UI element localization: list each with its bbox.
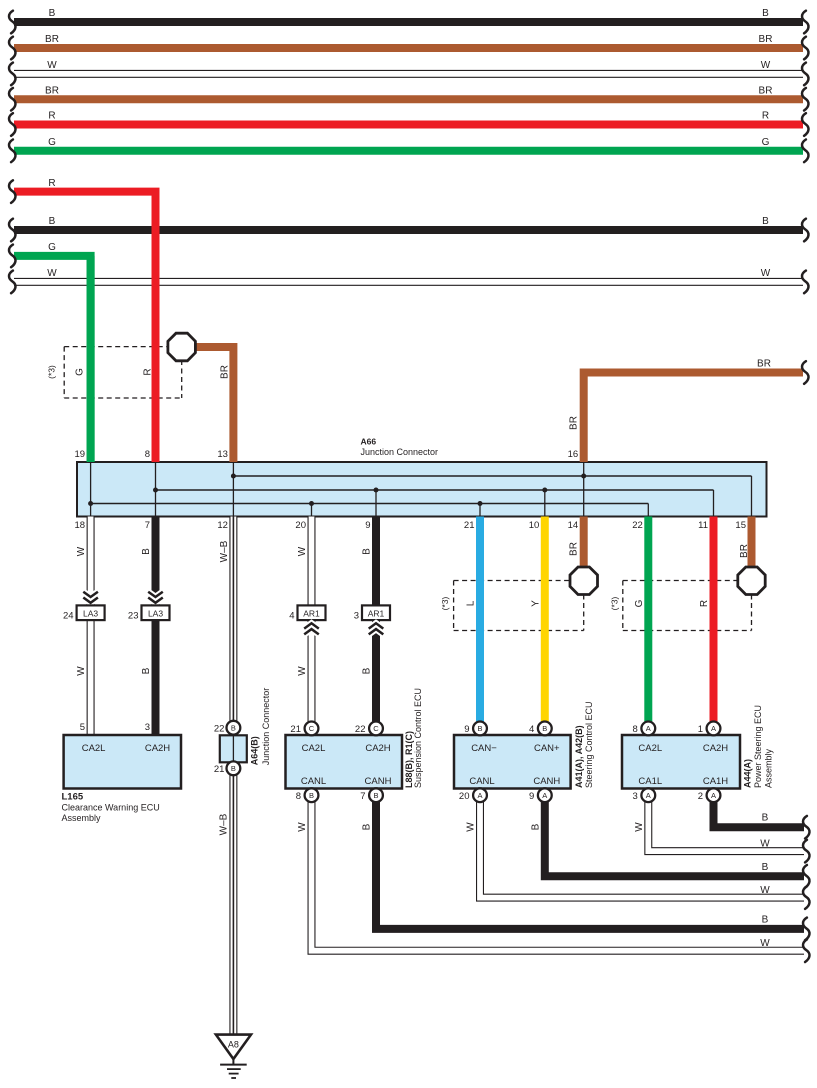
ground bar 3 <box>229 1073 239 1075</box>
A66 CAN-low bus line <box>91 503 649 505</box>
svg-text:B: B <box>49 216 56 227</box>
pin circle 1 A of A44 <box>707 722 721 736</box>
svg-text:21: 21 <box>214 764 225 775</box>
junction dot pin13 bus <box>231 474 236 479</box>
wire R horizontal to vertical pin 8 <box>14 192 156 462</box>
svg-text:CAN−: CAN− <box>471 743 497 754</box>
wire BR pin14 to shield octagon <box>580 517 588 581</box>
svg-text:A: A <box>477 791 482 800</box>
svg-text:B: B <box>231 764 236 773</box>
connector arrows into AR1 pin4 <box>304 623 319 628</box>
svg-text:G: G <box>48 242 56 253</box>
svg-text:13: 13 <box>217 449 228 460</box>
svg-text:W: W <box>76 666 87 676</box>
break left R y=124.5 <box>9 113 15 136</box>
junction dot pin20 bus <box>309 501 314 506</box>
svg-text:22: 22 <box>632 520 643 531</box>
svg-text:B: B <box>762 813 769 824</box>
svg-text:G: G <box>634 599 645 607</box>
break right R y=124.5 <box>802 113 808 136</box>
svg-text:R: R <box>48 178 55 189</box>
wire B from A41 pin9 CANH to right edge <box>545 795 804 876</box>
wire B pin9 to L88 pin22 <box>372 517 380 736</box>
A66 pin stub 16-14 <box>583 462 585 517</box>
svg-text:Junction Connector: Junction Connector <box>361 447 439 457</box>
svg-text:A: A <box>711 791 716 800</box>
svg-text:BR: BR <box>759 34 773 45</box>
connector arrows into LA3 pin24 <box>83 592 98 597</box>
break left W group2 <box>9 271 15 294</box>
break right BR pin16 <box>802 361 808 384</box>
svg-text:Power Steering ECU: Power Steering ECU <box>753 705 763 788</box>
svg-text:W: W <box>761 60 771 71</box>
svg-text:W: W <box>297 546 308 556</box>
svg-text:LA3: LA3 <box>83 609 98 619</box>
wire B horizontal second group <box>14 226 803 234</box>
A66 shield bus line <box>233 475 751 477</box>
A66 CAN-high bus line <box>156 489 714 491</box>
svg-text:B: B <box>362 823 373 830</box>
svg-text:BR: BR <box>759 85 773 96</box>
shield terminator octagon pin15 <box>738 567 765 595</box>
pin circle 8 B of L88 <box>305 788 319 802</box>
svg-text:AR1: AR1 <box>303 609 320 619</box>
svg-text:C: C <box>373 724 379 733</box>
svg-text:W: W <box>297 822 308 832</box>
svg-text:B: B <box>309 791 314 800</box>
svg-text:12: 12 <box>217 520 228 531</box>
ground bar 1 <box>220 1064 247 1066</box>
pin circle 21 C of L88 <box>305 722 319 736</box>
wire B from L88 pin7 CANH to right edge <box>376 795 804 929</box>
junction connector A64(B) box <box>220 735 247 762</box>
svg-text:22: 22 <box>355 724 366 735</box>
wire G horizontal top group y=150.8 <box>14 147 803 155</box>
A66 pin stub 21 <box>479 504 481 517</box>
svg-text:A: A <box>542 791 547 800</box>
svg-text:22: 22 <box>214 723 225 734</box>
pin circle 21 B of A64 <box>227 761 241 775</box>
pin circle 3 A of A44 <box>641 788 655 802</box>
wire G horizontal to vertical pin 19 <box>14 256 91 462</box>
wire R horizontal top group y=124.5 <box>14 121 803 129</box>
svg-text:BR: BR <box>569 542 580 556</box>
wire G pin22 to A44 pin8 <box>644 517 652 729</box>
ground bar 2 <box>227 1068 241 1070</box>
junction dot pin9 bus <box>374 488 379 493</box>
svg-text:Clearance Warning ECU: Clearance Warning ECU <box>62 803 160 813</box>
svg-text:B: B <box>762 216 769 227</box>
svg-text:A41(A), A42(B): A41(A), A42(B) <box>574 725 584 788</box>
A66 pin stub 13-12 <box>232 462 234 517</box>
svg-text:L: L <box>466 600 477 606</box>
shield terminator octagon top <box>168 333 196 361</box>
svg-text:R: R <box>699 600 710 607</box>
svg-text:7: 7 <box>145 520 150 531</box>
svg-text:9: 9 <box>464 724 469 735</box>
svg-text:14: 14 <box>568 520 579 531</box>
svg-text:L165: L165 <box>62 792 84 803</box>
svg-text:W: W <box>760 839 770 850</box>
wire BR shield from octagon to A66 pin 13 <box>194 347 233 462</box>
break left G y=150.8 <box>9 140 15 163</box>
svg-text:B: B <box>762 8 769 19</box>
break right B group2 <box>802 219 808 242</box>
break left BR y=99.2 <box>9 88 15 111</box>
svg-text:CANH: CANH <box>365 776 392 787</box>
junction dot pin8 bus <box>153 488 158 493</box>
connector arrows into AR1 pin3 <box>369 623 384 628</box>
svg-text:G: G <box>48 137 56 148</box>
wire B from A44 pin2 to right edge <box>714 795 805 827</box>
break left BR y=48.0 <box>9 37 15 60</box>
svg-text:B: B <box>141 667 152 674</box>
wire L pin21 to A41 pin9 <box>476 517 484 729</box>
A66 pin stub 8-7 <box>155 462 157 517</box>
svg-text:4: 4 <box>529 724 534 735</box>
svg-text:9: 9 <box>529 791 534 802</box>
svg-text:7: 7 <box>360 791 365 802</box>
svg-text:(*3): (*3) <box>46 365 56 379</box>
svg-text:W: W <box>76 546 87 556</box>
connector AR1 pin 3 <box>362 605 390 620</box>
svg-text:16: 16 <box>568 449 579 460</box>
A66 pin stub 20 <box>311 504 313 517</box>
svg-text:W–B: W–B <box>219 540 230 562</box>
dashed option box (*3) around L and Y wires <box>453 581 455 631</box>
svg-text:W: W <box>47 60 57 71</box>
wire BR from A66 pin 16 to right edge <box>584 373 803 463</box>
break right G y=150.8 <box>802 140 808 163</box>
svg-text:A66: A66 <box>361 437 377 447</box>
svg-text:CANH: CANH <box>533 776 560 787</box>
junction dot pin10 bus <box>542 488 547 493</box>
A66 pin stub 15 <box>751 476 753 517</box>
break right bottom B y=876.3 <box>803 865 809 888</box>
pin circle 9 A of A41 <box>538 788 552 802</box>
svg-text:BR: BR <box>569 416 580 430</box>
ground stem <box>232 1059 234 1065</box>
svg-text:21: 21 <box>464 520 475 531</box>
svg-text:G: G <box>762 137 770 148</box>
svg-text:B: B <box>362 548 373 555</box>
svg-text:3: 3 <box>354 611 359 622</box>
break right W y=73.9 <box>802 63 808 86</box>
svg-text:BR: BR <box>757 359 771 370</box>
wire W from A41 pin20 CANL to right edge <box>480 795 804 897</box>
wire BR horizontal top group y=48.0 <box>14 44 803 52</box>
pin circle 7 B of L88 <box>369 788 383 802</box>
ECU box L165 Clearance Warning ECU <box>64 735 181 789</box>
connector LA3 pin 24 <box>77 605 105 620</box>
svg-text:5: 5 <box>80 722 85 733</box>
svg-text:B: B <box>477 724 482 733</box>
wire W horizontal second group <box>14 278 803 286</box>
svg-text:A8: A8 <box>228 1040 239 1050</box>
break left R group2 <box>9 180 15 203</box>
wire W-B pin12 to ground A8 <box>229 517 237 1035</box>
svg-text:23: 23 <box>128 611 139 622</box>
svg-text:B: B <box>362 667 373 674</box>
break right bottom B y=827.2 <box>803 816 809 839</box>
ground A8 triangle <box>216 1035 251 1059</box>
svg-text:CA2H: CA2H <box>703 743 728 754</box>
svg-text:CA2L: CA2L <box>82 743 106 754</box>
wire R vertical over crossings <box>152 192 160 462</box>
svg-text:R: R <box>762 111 769 122</box>
svg-text:B: B <box>231 724 236 733</box>
break right bottom W y=897.6 <box>803 886 809 909</box>
svg-text:BR: BR <box>219 365 230 379</box>
pin circle 8 A of A44 <box>641 722 655 736</box>
svg-text:A: A <box>711 724 716 733</box>
svg-text:W: W <box>760 938 770 949</box>
svg-text:B: B <box>762 914 769 925</box>
ground bar 4 <box>231 1077 236 1079</box>
svg-text:B: B <box>530 823 541 830</box>
wire G vertical over crossings <box>87 256 95 462</box>
svg-text:Junction Connector: Junction Connector <box>261 688 271 766</box>
svg-text:Suspension Control ECU: Suspension Control ECU <box>413 688 423 788</box>
pin circle 20 A of A41 <box>473 788 487 802</box>
svg-text:Assembly: Assembly <box>763 748 773 788</box>
svg-text:8: 8 <box>145 449 150 460</box>
svg-text:CAN+: CAN+ <box>534 743 560 754</box>
junction dot pin16 bus <box>581 474 586 479</box>
connector arrows into LA3 pin23 <box>148 592 163 597</box>
svg-text:CA2L: CA2L <box>302 743 326 754</box>
svg-text:AR1: AR1 <box>368 609 385 619</box>
svg-text:B: B <box>542 724 547 733</box>
svg-text:A: A <box>646 791 651 800</box>
dashed option box (*3) around G and R wires top <box>63 347 65 398</box>
break right W group2 <box>802 271 808 294</box>
wire W from L88 pin8 CANL to right edge <box>312 795 805 951</box>
connector LA3 pin 23 <box>142 605 170 620</box>
svg-text:BR: BR <box>45 85 59 96</box>
svg-text:B: B <box>762 862 769 873</box>
svg-text:2: 2 <box>698 791 703 802</box>
svg-text:W: W <box>297 666 308 676</box>
junction dot pin21 bus <box>478 501 483 506</box>
svg-text:3: 3 <box>145 722 150 733</box>
pin circle 9 B of A41 <box>473 722 487 736</box>
ECU box A41 Steering Control ECU <box>454 735 571 789</box>
wire W pin18 to L165 pin5 <box>87 517 95 736</box>
svg-text:CA1L: CA1L <box>638 776 662 787</box>
svg-text:24: 24 <box>63 611 74 622</box>
svg-text:9: 9 <box>365 520 370 531</box>
svg-text:Y: Y <box>530 600 541 607</box>
break right bottom W y=851.1 <box>803 840 809 863</box>
svg-text:Steering Control ECU: Steering Control ECU <box>584 701 594 788</box>
wire W from A44 pin3 to right edge <box>648 795 804 851</box>
svg-text:A: A <box>646 724 651 733</box>
svg-text:10: 10 <box>529 520 540 531</box>
svg-text:20: 20 <box>459 791 470 802</box>
svg-text:B: B <box>49 8 56 19</box>
svg-text:8: 8 <box>296 791 301 802</box>
svg-text:CA1H: CA1H <box>703 776 728 787</box>
svg-text:W: W <box>761 268 771 279</box>
pin circle 2 A of A44 <box>707 788 721 802</box>
svg-text:21: 21 <box>290 724 301 735</box>
svg-text:LA3: LA3 <box>148 609 163 619</box>
break left B y=22.0 <box>9 11 15 34</box>
svg-text:CA2H: CA2H <box>365 743 390 754</box>
pin circle 4 B of A41 <box>538 722 552 736</box>
svg-text:C: C <box>309 724 315 733</box>
svg-text:1: 1 <box>698 724 703 735</box>
pin circle 22 B of A64 <box>227 721 241 735</box>
svg-text:BR: BR <box>45 34 59 45</box>
pin circle 22 C of L88 <box>369 722 383 736</box>
svg-text:R: R <box>143 368 154 375</box>
wire BR horizontal top group y=99.2 <box>14 95 803 103</box>
break left B group2 <box>9 219 15 242</box>
A66 pin stub 22 <box>647 504 649 517</box>
svg-text:20: 20 <box>295 520 306 531</box>
svg-text:W: W <box>47 268 57 279</box>
break right BR y=99.2 <box>802 88 808 111</box>
junction dot pin19 bus <box>88 501 93 506</box>
wire BR pin15 to shield octagon <box>748 517 756 581</box>
svg-text:3: 3 <box>633 791 638 802</box>
svg-text:19: 19 <box>75 449 86 460</box>
A66 pin stub 11 <box>713 490 715 517</box>
svg-text:A44(A): A44(A) <box>742 759 752 788</box>
wire R pin11 to A44 pin1 <box>710 517 718 729</box>
svg-text:(*3): (*3) <box>440 596 450 610</box>
svg-text:CA2H: CA2H <box>145 743 170 754</box>
svg-text:B: B <box>373 791 378 800</box>
svg-text:Assembly: Assembly <box>62 813 102 823</box>
shield terminator octagon pin14 <box>570 567 598 595</box>
break right BR y=48.0 <box>802 37 808 60</box>
svg-text:4: 4 <box>289 611 294 622</box>
svg-text:11: 11 <box>698 520 708 531</box>
svg-text:W: W <box>760 885 770 896</box>
ECU box L88 Suspension Control ECU <box>286 735 403 789</box>
wire B pin7 to L165 pin3 <box>152 517 160 736</box>
break right bottom W y=950.7 <box>803 939 809 962</box>
A66 pin stub 10 <box>544 490 546 517</box>
ECU box A44 Power Steering ECU <box>622 735 740 789</box>
svg-text:(*3): (*3) <box>609 596 619 610</box>
A66 pin stub 9 <box>375 490 377 517</box>
svg-text:8: 8 <box>633 724 638 735</box>
svg-text:W: W <box>634 822 645 832</box>
wire W horizontal top group y=73.9 <box>14 70 803 78</box>
svg-text:R: R <box>48 111 55 122</box>
junction connector A66 box <box>77 462 767 517</box>
svg-text:BR: BR <box>739 544 750 558</box>
svg-text:W–B: W–B <box>219 813 230 835</box>
dashed option box (*3) around G and R wires lower <box>622 581 624 631</box>
break right bottom B y=928.9 <box>803 918 809 941</box>
break left W y=73.9 <box>9 63 15 86</box>
svg-text:A64(B): A64(B) <box>249 736 259 765</box>
svg-text:CA2L: CA2L <box>638 743 662 754</box>
wire B horizontal top group y=22.0 <box>14 18 803 26</box>
svg-text:W: W <box>466 822 477 832</box>
svg-text:B: B <box>141 548 152 555</box>
A66 pin stub 19-18 <box>90 462 92 517</box>
svg-text:15: 15 <box>735 520 746 531</box>
break left G group2 <box>9 245 15 268</box>
svg-text:CANL: CANL <box>469 776 494 787</box>
svg-text:CANL: CANL <box>301 776 326 787</box>
break right B y=22.0 <box>802 11 808 34</box>
wire W pin20 to L88 pin21 <box>308 517 316 736</box>
svg-text:G: G <box>75 368 86 376</box>
wire Y pin10 to A41 pin4 <box>541 517 549 729</box>
connector AR1 pin 4 <box>298 605 326 620</box>
svg-text:18: 18 <box>75 520 86 531</box>
